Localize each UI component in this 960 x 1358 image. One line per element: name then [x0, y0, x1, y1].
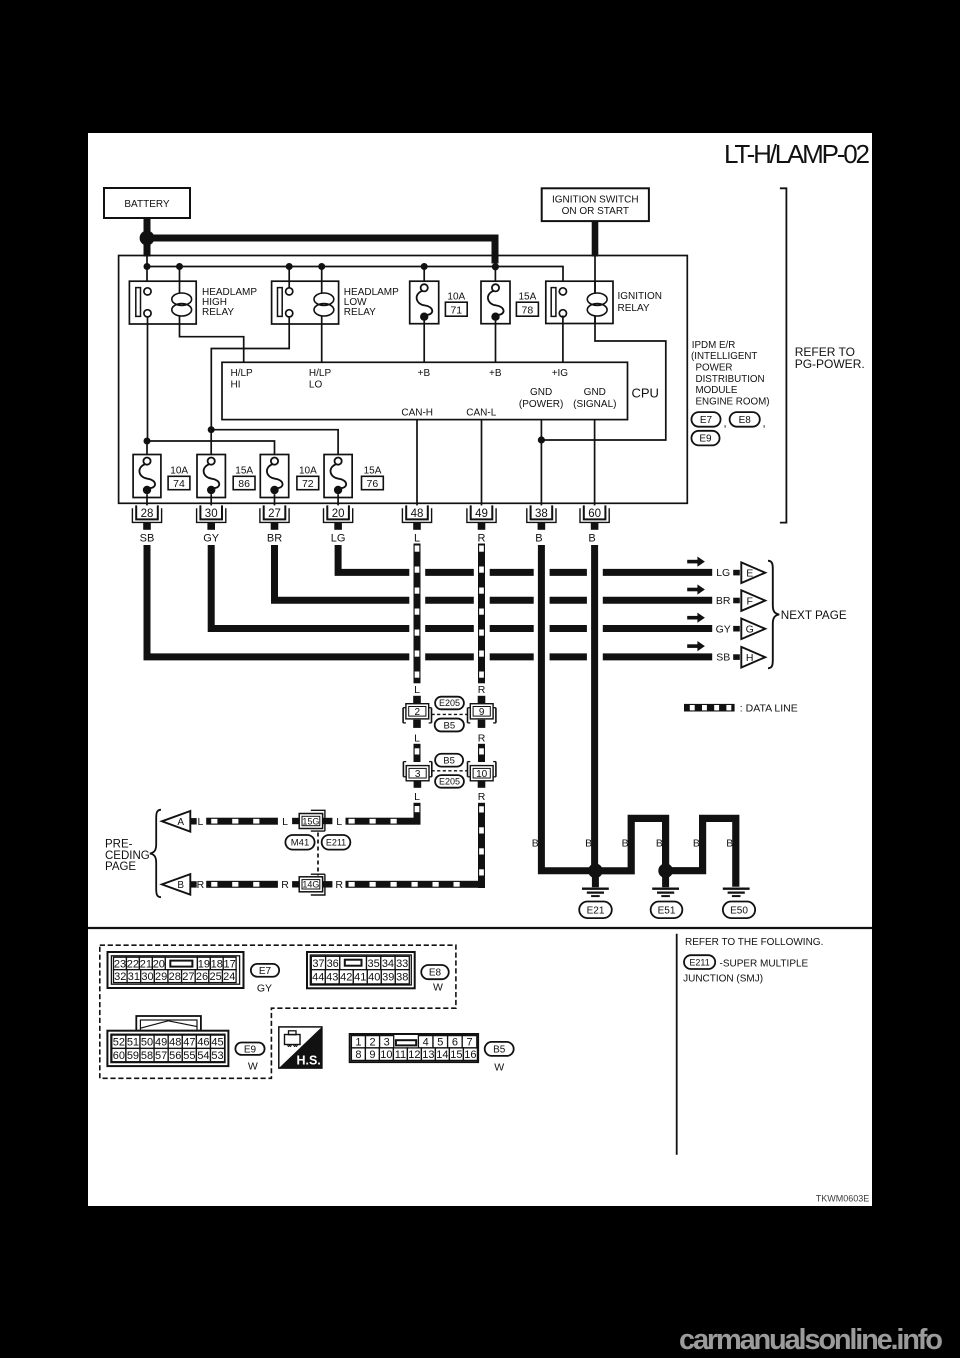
svg-text:(INTELLIGENT: (INTELLIGENT [691, 351, 757, 362]
svg-text:R: R [478, 791, 486, 803]
connector E7 pinout [108, 952, 244, 988]
svg-text:58: 58 [141, 1050, 153, 1062]
svg-text:15A: 15A [364, 466, 382, 477]
wire ignition coil to ground net [541, 316, 665, 440]
label BR bus [716, 595, 731, 607]
node fuse row junction 1 [144, 438, 151, 445]
label 10A fuse 72 [299, 466, 317, 477]
svg-text:46: 46 [197, 1037, 209, 1049]
svg-text:L: L [414, 684, 420, 696]
label DATA LINE [740, 702, 798, 714]
label R mid 1 [478, 684, 486, 696]
relay HEADLAMP HIGH box [129, 281, 196, 324]
relay IGNITION box [546, 281, 613, 323]
label GND SIGNAL [573, 387, 616, 410]
wire R data row b1 [206, 881, 278, 888]
node fuse row junction 2 [208, 426, 215, 433]
arrow mark SB [687, 641, 705, 651]
connector ref E50 [723, 902, 755, 919]
label 78 box [516, 302, 538, 316]
svg-text:: DATA LINE: : DATA LINE [740, 702, 798, 714]
wire mating dashes a [432, 713, 468, 715]
wire low contact to fuse row [211, 317, 289, 430]
connector E9 pinout [107, 1016, 228, 1066]
svg-text:POWER: POWER [696, 363, 733, 374]
svg-text:21: 21 [140, 958, 152, 970]
brace next page [768, 561, 779, 669]
svg-text:BR: BR [716, 595, 731, 607]
svg-text:49: 49 [475, 508, 488, 520]
svg-text:LG: LG [331, 533, 346, 545]
fuse 74 [133, 455, 161, 498]
label comma 1 [724, 418, 727, 430]
label HEADLAMP LOW RELAY [344, 287, 399, 318]
label wire B 38 [535, 533, 542, 545]
label REFER TO PG-POWER [795, 345, 865, 371]
label +IG pin [552, 368, 569, 379]
label B leg 6 [726, 838, 733, 850]
connector B5 pinout [350, 1034, 478, 1062]
label 74 box [168, 476, 190, 490]
svg-text:PG-POWER.: PG-POWER. [795, 357, 865, 371]
svg-text:E211: E211 [689, 957, 709, 967]
svg-text:B: B [588, 533, 595, 545]
label B5 color W [494, 1062, 504, 1074]
svg-text:B5: B5 [443, 720, 455, 731]
label L mid 1 [414, 684, 420, 696]
svg-text:B: B [726, 838, 733, 850]
label TKWM0603E [816, 1194, 870, 1204]
label LG bus [716, 567, 730, 579]
svg-text:GND: GND [584, 387, 606, 398]
svg-text:18: 18 [211, 958, 223, 970]
svg-text:B: B [177, 880, 184, 891]
svg-text:CPU: CPU [632, 386, 659, 401]
arrow B [162, 874, 190, 895]
wire CAN-L to pin 49 [481, 420, 483, 506]
svg-text:NEXT PAGE: NEXT PAGE [781, 609, 847, 622]
svg-text:57: 57 [155, 1050, 167, 1062]
wire L stub b [413, 720, 421, 728]
wire battery into IPDM [144, 244, 151, 257]
svg-text:7: 7 [466, 1037, 472, 1049]
svg-text:30: 30 [141, 971, 153, 983]
connector ref B5 b [435, 754, 463, 767]
wire ignition coil feed [594, 256, 596, 294]
fuse 78 [481, 281, 510, 324]
label +B pin 2 [489, 368, 502, 379]
svg-text:CEDING: CEDING [105, 850, 150, 862]
svg-text:E50: E50 [730, 905, 748, 916]
battery box [104, 188, 190, 218]
svg-text:L: L [197, 816, 203, 828]
svg-text:60: 60 [588, 508, 601, 520]
relay HEADLAMP LOW contact [278, 288, 293, 317]
svg-text:2: 2 [369, 1037, 375, 1049]
svg-text:ENGINE ROOM): ENGINE ROOM) [696, 396, 770, 407]
connector 15G [292, 810, 332, 831]
svg-text:4: 4 [423, 1037, 429, 1049]
wire coil feed low [321, 267, 323, 282]
svg-text:E8: E8 [739, 415, 752, 426]
svg-text:36: 36 [327, 958, 339, 970]
wire BR stub [733, 598, 740, 604]
wire branch to fuse 76 [211, 430, 338, 458]
svg-text:60: 60 [113, 1050, 125, 1062]
label E8 color W [433, 982, 443, 994]
svg-text:REFER TO THE FOLLOWING.: REFER TO THE FOLLOWING. [685, 937, 823, 948]
connector ref M41 [285, 835, 314, 850]
svg-text:9: 9 [369, 1049, 375, 1061]
svg-text:53: 53 [211, 1050, 223, 1062]
label +B pin 1 [418, 368, 431, 379]
wire smj dashes [317, 833, 319, 876]
label L row a2 [282, 816, 288, 828]
svg-text:41: 41 [354, 972, 366, 984]
wire R data row b2 [346, 881, 479, 888]
svg-text:(POWER): (POWER) [519, 399, 563, 410]
svg-text:74: 74 [173, 478, 185, 490]
wire fuse 72 to pin 27 [274, 494, 276, 505]
wire coil feed high [179, 267, 181, 282]
svg-text:3: 3 [384, 1037, 390, 1049]
svg-text:15: 15 [450, 1049, 462, 1061]
label B leg 5 [693, 838, 700, 850]
label 10A fuse 71 [447, 291, 465, 302]
svg-text:15A: 15A [519, 291, 537, 302]
label B leg 1 [532, 838, 539, 850]
wire B loop 2 [669, 818, 736, 886]
label IGNITION RELAY [618, 291, 662, 314]
label 15A fuse 76 [364, 466, 382, 477]
relay IGNITION coil [587, 281, 607, 324]
label wire B 60 [588, 533, 595, 545]
svg-text:GND: GND [530, 387, 552, 398]
svg-text:12: 12 [408, 1049, 420, 1061]
relay HEADLAMP HIGH contact [136, 288, 151, 317]
arrow mark GY [687, 613, 705, 623]
fuse 71 [410, 281, 439, 324]
divider line [676, 934, 678, 1155]
wire B stub [190, 881, 196, 887]
label CAN-H [401, 408, 433, 419]
arrow mark BR [687, 584, 705, 594]
wire GND SIGNAL to pin 60 [594, 420, 596, 506]
label HEADLAMP HIGH RELAY [202, 287, 257, 318]
svg-text:33: 33 [396, 958, 408, 970]
svg-text:50: 50 [141, 1037, 153, 1049]
svg-text:48: 48 [169, 1037, 181, 1049]
svg-text:2: 2 [415, 707, 421, 718]
svg-text:43: 43 [326, 972, 338, 984]
connector ref E9 [691, 431, 719, 446]
wire CAN-H to pin 48 [416, 420, 418, 506]
label E7 color GY [257, 983, 272, 995]
svg-text:15G: 15G [302, 816, 319, 826]
svg-text:A: A [177, 817, 184, 828]
svg-text:10: 10 [476, 769, 488, 780]
svg-text:11: 11 [395, 1049, 406, 1061]
svg-text:24: 24 [223, 971, 235, 983]
label wire LG [331, 533, 346, 545]
arrow mark LG [687, 557, 705, 567]
svg-text:CAN-L: CAN-L [466, 408, 496, 419]
label 86 box [233, 476, 255, 490]
wire battery bus to IPDM [151, 238, 496, 264]
svg-text:HI: HI [231, 380, 241, 391]
ground E21 [582, 889, 609, 896]
svg-text:30: 30 [205, 508, 218, 520]
svg-text:IGNITION SWITCH: IGNITION SWITCH [552, 195, 639, 206]
svg-text:W: W [433, 982, 443, 994]
svg-text:10A: 10A [299, 466, 317, 477]
label 10A fuse 74 [170, 466, 188, 477]
wire GY stub [733, 626, 740, 632]
relay HEADLAMP LOW coil [314, 281, 334, 324]
wire ignition contact to +IG [562, 316, 564, 363]
wire L stub a [413, 696, 421, 703]
arrow G [741, 619, 765, 640]
wire L data 3 corner [414, 803, 421, 825]
ground E51 stub [662, 874, 669, 887]
label L row a3 [336, 816, 342, 828]
svg-text:E21: E21 [587, 905, 605, 916]
svg-text:E205: E205 [439, 777, 460, 787]
label CPU [632, 386, 659, 401]
svg-text:L: L [282, 816, 288, 828]
svg-text:9: 9 [479, 707, 485, 718]
connector ref E211 [322, 835, 351, 850]
svg-text:RELAY: RELAY [618, 303, 650, 314]
connector 10 [468, 762, 496, 781]
wire B 60 to ground [591, 545, 598, 867]
connector 14G [292, 874, 332, 895]
fuse 86 [197, 455, 225, 498]
svg-text:L: L [414, 732, 420, 744]
svg-text:DISTRIBUTION: DISTRIBUTION [696, 374, 765, 385]
svg-text:CAN-H: CAN-H [401, 408, 433, 419]
wire GND POWER to pin 38 [540, 420, 542, 506]
wire mating dashes b [432, 770, 468, 772]
connector ref E211 note [684, 955, 715, 969]
svg-text:LT-H/LAMP-02: LT-H/LAMP-02 [724, 139, 870, 169]
svg-text:78: 78 [522, 305, 534, 317]
wire branch to fuse 72 [147, 441, 275, 458]
svg-text:B5: B5 [443, 756, 455, 767]
IPDM E/R box [119, 256, 688, 504]
wire BR bus [275, 545, 713, 600]
label 15A fuse 78 [519, 291, 537, 302]
svg-text:3: 3 [415, 769, 421, 780]
svg-text:H.S.: H.S. [296, 1053, 320, 1067]
svg-text:E: E [746, 568, 753, 580]
ground E21 stub [592, 874, 599, 887]
svg-text:E51: E51 [658, 905, 676, 916]
svg-text:RELAY: RELAY [202, 307, 234, 318]
label 15A fuse 86 [235, 466, 253, 477]
svg-text:26: 26 [196, 971, 208, 983]
relay HEADLAMP HIGH coil [172, 281, 192, 324]
wire B 38 to ground [541, 545, 592, 871]
svg-text:31: 31 [128, 971, 140, 983]
wire fuse 76 to pin 20 [337, 494, 339, 505]
pin 30 [197, 505, 226, 529]
svg-text:W: W [494, 1062, 504, 1074]
svg-text:32: 32 [114, 971, 126, 983]
fuse 72 [260, 455, 288, 498]
wire R data 3 corner [478, 803, 485, 888]
wire to fuse 74 [146, 441, 148, 458]
connector ref B5 a [435, 719, 464, 732]
svg-text:H/LP: H/LP [231, 368, 254, 379]
svg-text:SB: SB [716, 652, 730, 664]
label 72 box [297, 476, 319, 490]
svg-text:B: B [622, 838, 629, 850]
connector ref E7 [691, 412, 720, 427]
label R row b1 [197, 879, 205, 891]
label wire BR [267, 533, 282, 545]
svg-text:R: R [478, 684, 486, 696]
svg-text:B: B [532, 838, 539, 850]
svg-text:44: 44 [312, 972, 324, 984]
svg-text:R: R [478, 732, 486, 744]
label L row a1 [197, 816, 203, 828]
svg-text:W: W [248, 1061, 258, 1073]
svg-text:R: R [478, 533, 486, 545]
connector E8 pinout [307, 952, 415, 988]
svg-text:B5: B5 [493, 1045, 506, 1056]
svg-text:PAGE: PAGE [105, 861, 136, 873]
svg-text:R: R [197, 879, 205, 891]
label B leg 4 [656, 838, 663, 850]
label R mid 3 [478, 791, 486, 803]
label R row b3 [335, 879, 343, 891]
wire to fuse 86 [210, 430, 212, 458]
pin 27 [260, 505, 289, 529]
label REFER TO THE FOLLOWING [685, 937, 823, 948]
brace preceding page [150, 810, 161, 898]
svg-text:55: 55 [183, 1050, 195, 1062]
svg-text:R: R [335, 879, 343, 891]
svg-text:E205: E205 [439, 698, 460, 708]
label GY bus [716, 623, 731, 635]
svg-text:JUNCTION (SMJ): JUNCTION (SMJ) [683, 974, 763, 985]
svg-text:76: 76 [367, 478, 379, 490]
svg-text:19: 19 [198, 958, 210, 970]
svg-text:E8: E8 [429, 968, 442, 979]
svg-text:6: 6 [452, 1037, 458, 1049]
svg-text:F: F [746, 596, 752, 608]
connector ref B5 detail [485, 1042, 514, 1056]
legend data line [684, 704, 735, 712]
svg-text:49: 49 [155, 1037, 167, 1049]
wire L data 1 [414, 544, 421, 684]
svg-text:59: 59 [127, 1050, 139, 1062]
white page area [88, 133, 872, 1206]
wire high contact to fuse row [147, 317, 149, 441]
label wire L top [414, 533, 420, 545]
logo H.S. [279, 1027, 322, 1068]
wire GY bus [211, 545, 712, 629]
svg-text:14G: 14G [302, 880, 319, 890]
label H/LP LO [309, 368, 332, 391]
wire R stub c [478, 781, 486, 788]
svg-text:B: B [693, 838, 700, 850]
connector ref E21 [579, 902, 612, 919]
svg-text:1: 1 [355, 1037, 361, 1049]
ground E51 [652, 889, 679, 896]
wire ignition switch stub [592, 221, 599, 257]
fuse 76 [324, 455, 352, 498]
svg-text:LG: LG [716, 567, 730, 579]
wire LG bus [338, 545, 712, 572]
svg-text:GY: GY [203, 533, 220, 545]
label SUPER MULTIPLE [720, 958, 809, 969]
watermark [679, 1324, 943, 1356]
svg-text:+IG: +IG [552, 368, 569, 379]
svg-text:51: 51 [127, 1037, 139, 1049]
node bus junction 6 [492, 263, 499, 270]
label B leg 3 [622, 838, 629, 850]
wire fuse 71 to +B [423, 321, 425, 363]
pin 28 [132, 505, 161, 529]
svg-text:40: 40 [368, 972, 380, 984]
svg-text:-SUPER MULTIPLE: -SUPER MULTIPLE [720, 958, 809, 969]
svg-text:71: 71 [450, 305, 462, 317]
label H/LP HI [231, 368, 254, 391]
connector 2 [403, 704, 431, 723]
svg-text:H: H [746, 652, 754, 664]
svg-text:B: B [535, 533, 542, 545]
svg-text:M41: M41 [291, 838, 309, 849]
svg-text:MODULE: MODULE [696, 385, 738, 396]
pin 20 [324, 505, 353, 529]
node battery junction [140, 231, 155, 246]
wire SB bus [147, 545, 712, 657]
svg-text:B: B [656, 838, 663, 850]
svg-text:13: 13 [422, 1049, 434, 1061]
svg-text:BR: BR [267, 533, 282, 545]
svg-text:72: 72 [302, 478, 314, 490]
svg-text:10A: 10A [447, 291, 465, 302]
label wire GY [203, 533, 220, 545]
svg-text:IPDM E/R: IPDM E/R [692, 340, 736, 351]
label CAN-L [466, 408, 496, 419]
node ground junction E21 [588, 864, 603, 879]
svg-text:E9: E9 [699, 434, 712, 445]
CPU box [222, 362, 628, 419]
svg-text:86: 86 [238, 478, 250, 490]
svg-text:34: 34 [382, 958, 394, 970]
connector ref E8 detail [421, 965, 449, 979]
pin 49 [467, 505, 496, 529]
pin 48 [402, 505, 431, 529]
svg-text:35: 35 [368, 958, 380, 970]
connector ref E8 [730, 412, 760, 427]
svg-text:17: 17 [224, 958, 236, 970]
svg-text:BATTERY: BATTERY [124, 199, 170, 210]
svg-text:45: 45 [211, 1037, 223, 1049]
svg-text:20: 20 [153, 958, 165, 970]
svg-text:27: 27 [268, 508, 281, 520]
svg-text:B: B [585, 838, 592, 850]
wire L data row a1 [206, 818, 278, 825]
svg-text:14: 14 [436, 1049, 448, 1061]
label wire R top [478, 533, 486, 545]
svg-text:28: 28 [141, 508, 154, 520]
svg-text:27: 27 [182, 971, 194, 983]
wire contact feed low [288, 267, 290, 288]
